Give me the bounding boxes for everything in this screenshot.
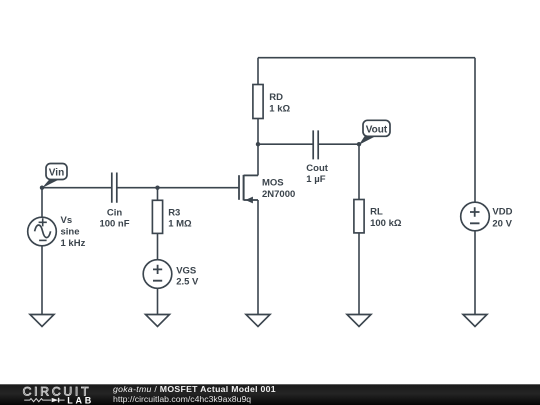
svg-text:Cin: Cin (107, 208, 123, 219)
svg-text:1 kΩ: 1 kΩ (269, 104, 290, 115)
voltage source Vs (sine 1 kHz) (28, 215, 86, 249)
svg-text:Vout: Vout (366, 125, 388, 136)
wire top rail to VDD (474, 58, 476, 203)
wire Cout to Vout node (318, 143, 359, 145)
resistor R3 1 MΩ (152, 200, 192, 233)
wire Vin node to Vs top (41, 188, 43, 218)
node drain junction (256, 142, 260, 146)
ground (VGS) (146, 315, 170, 327)
node R3 junction (155, 186, 159, 190)
wire RD top to top rail (257, 58, 259, 85)
voltage source VDD 20 V (461, 202, 513, 231)
resistor RL 100 kΩ (354, 200, 402, 233)
svg-text:RL: RL (370, 207, 383, 218)
capacitor Cout 1 µF (306, 130, 328, 185)
ground (source) (246, 315, 270, 327)
flag Vout (359, 120, 390, 144)
svg-text:sine: sine (61, 226, 80, 237)
wire VGS to ground (157, 288, 159, 315)
wire top rail (258, 57, 475, 59)
svg-text:VGS: VGS (176, 265, 196, 276)
svg-text:20 V: 20 V (492, 218, 512, 229)
svg-text:1 MΩ: 1 MΩ (168, 219, 192, 230)
svg-text:1 µF: 1 µF (306, 174, 325, 185)
svg-text:LAB: LAB (67, 395, 94, 405)
svg-text:2.5 V: 2.5 V (176, 276, 199, 287)
svg-text:1 kHz: 1 kHz (61, 238, 86, 249)
svg-text:goka-tmu / MOSFET Actual Model: goka-tmu / MOSFET Actual Model 001 (113, 384, 276, 394)
ground (VDD) (463, 315, 487, 327)
svg-text:2N7000: 2N7000 (262, 189, 295, 200)
wire Cin to gate (117, 187, 239, 189)
resistor RD 1 kΩ (253, 85, 291, 119)
svg-text:100 kΩ: 100 kΩ (370, 218, 402, 229)
svg-text:Vs: Vs (61, 215, 73, 226)
svg-text:100 nF: 100 nF (99, 219, 129, 230)
ground (RL) (347, 315, 371, 327)
svg-text:R3: R3 (168, 208, 180, 219)
svg-text:RD: RD (269, 92, 283, 103)
flag Vin (42, 164, 67, 189)
wire RL to ground (358, 233, 360, 315)
wire drain node to Cout (258, 143, 313, 145)
wire R3 node down (157, 188, 159, 201)
wire gate net horizontal (42, 187, 112, 189)
transistor MOS 2N7000 (NMOS) (239, 175, 295, 204)
voltage source VGS 2.5 V (143, 260, 199, 289)
CircuitLab logo (23, 385, 95, 405)
footer bar (0, 384, 540, 405)
wire MOSFET source to ground (257, 200, 259, 315)
ground (Vs) (30, 315, 54, 327)
svg-text:MOS: MOS (262, 178, 284, 189)
wire drain node to MOSFET drain (257, 144, 259, 175)
node Vin junction (40, 186, 44, 190)
svg-text:Vin: Vin (49, 167, 64, 178)
wire RD bottom to drain node (257, 119, 259, 145)
wire Vs bottom to ground (41, 246, 43, 315)
svg-text:VDD: VDD (492, 207, 512, 218)
wire VDD to ground (474, 231, 476, 315)
capacitor Cin 100 nF (99, 173, 129, 230)
svg-text:Cout: Cout (306, 163, 328, 174)
footer title text (113, 384, 276, 404)
wire R3 to VGS (157, 233, 159, 260)
node Vout junction (357, 142, 361, 146)
svg-text:http://circuitlab.com/c4hc3k9a: http://circuitlab.com/c4hc3k9ax8u9q (113, 394, 251, 404)
wire Vout node to RL (358, 144, 360, 199)
